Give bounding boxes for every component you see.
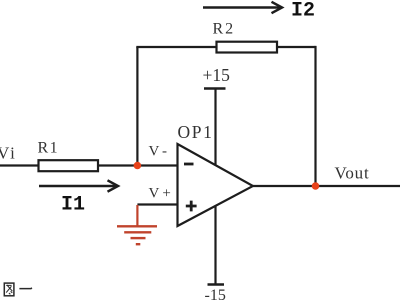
op-amp U1 triangle — [178, 144, 254, 226]
svg-text:R1: R1 — [38, 140, 60, 157]
svg-text:+15: +15 — [203, 65, 231, 85]
node A: inverting input junction — [134, 162, 142, 170]
svg-text:I1: I1 — [61, 194, 85, 217]
svg-text:-15: -15 — [205, 287, 226, 300]
wire: +15 stem to op-amp top edge — [214, 89, 216, 165]
wire: feedback left vertical — [136, 47, 138, 166]
node B: output junction — [312, 182, 320, 190]
svg-text:I2: I2 — [291, 0, 315, 23]
svg-text:R2: R2 — [213, 21, 236, 38]
wire: feedback top horizontal — [136, 46, 315, 48]
op-amp minus pin symbol — [184, 163, 194, 166]
+15 supply bar — [204, 87, 226, 89]
svg-text:Vout: Vout — [335, 164, 370, 183]
wire: feedback right vertical to output node — [314, 46, 316, 186]
ground (red earth symbol) — [117, 205, 157, 244]
svg-text:Vi: Vi — [0, 143, 15, 162]
svg-text:OP1: OP1 — [178, 122, 214, 142]
wire: V+ input to ground corner — [137, 203, 177, 205]
wire: input Vi to op-amp inverting input — [0, 164, 178, 166]
wire: output — [253, 185, 400, 187]
arrow I1 — [39, 180, 118, 191]
label 图一 (figure one, drawn as vector strokes) — [4, 283, 32, 296]
wire: -15 stem from op-amp bottom edge — [214, 206, 216, 285]
svg-text:V-: V- — [149, 144, 167, 160]
resistor R1 — [39, 160, 99, 171]
resistor R2 — [217, 42, 278, 53]
arrow I2 — [203, 2, 282, 13]
-15 supply bar — [208, 283, 225, 285]
op-amp plus pin symbol — [186, 201, 197, 212]
